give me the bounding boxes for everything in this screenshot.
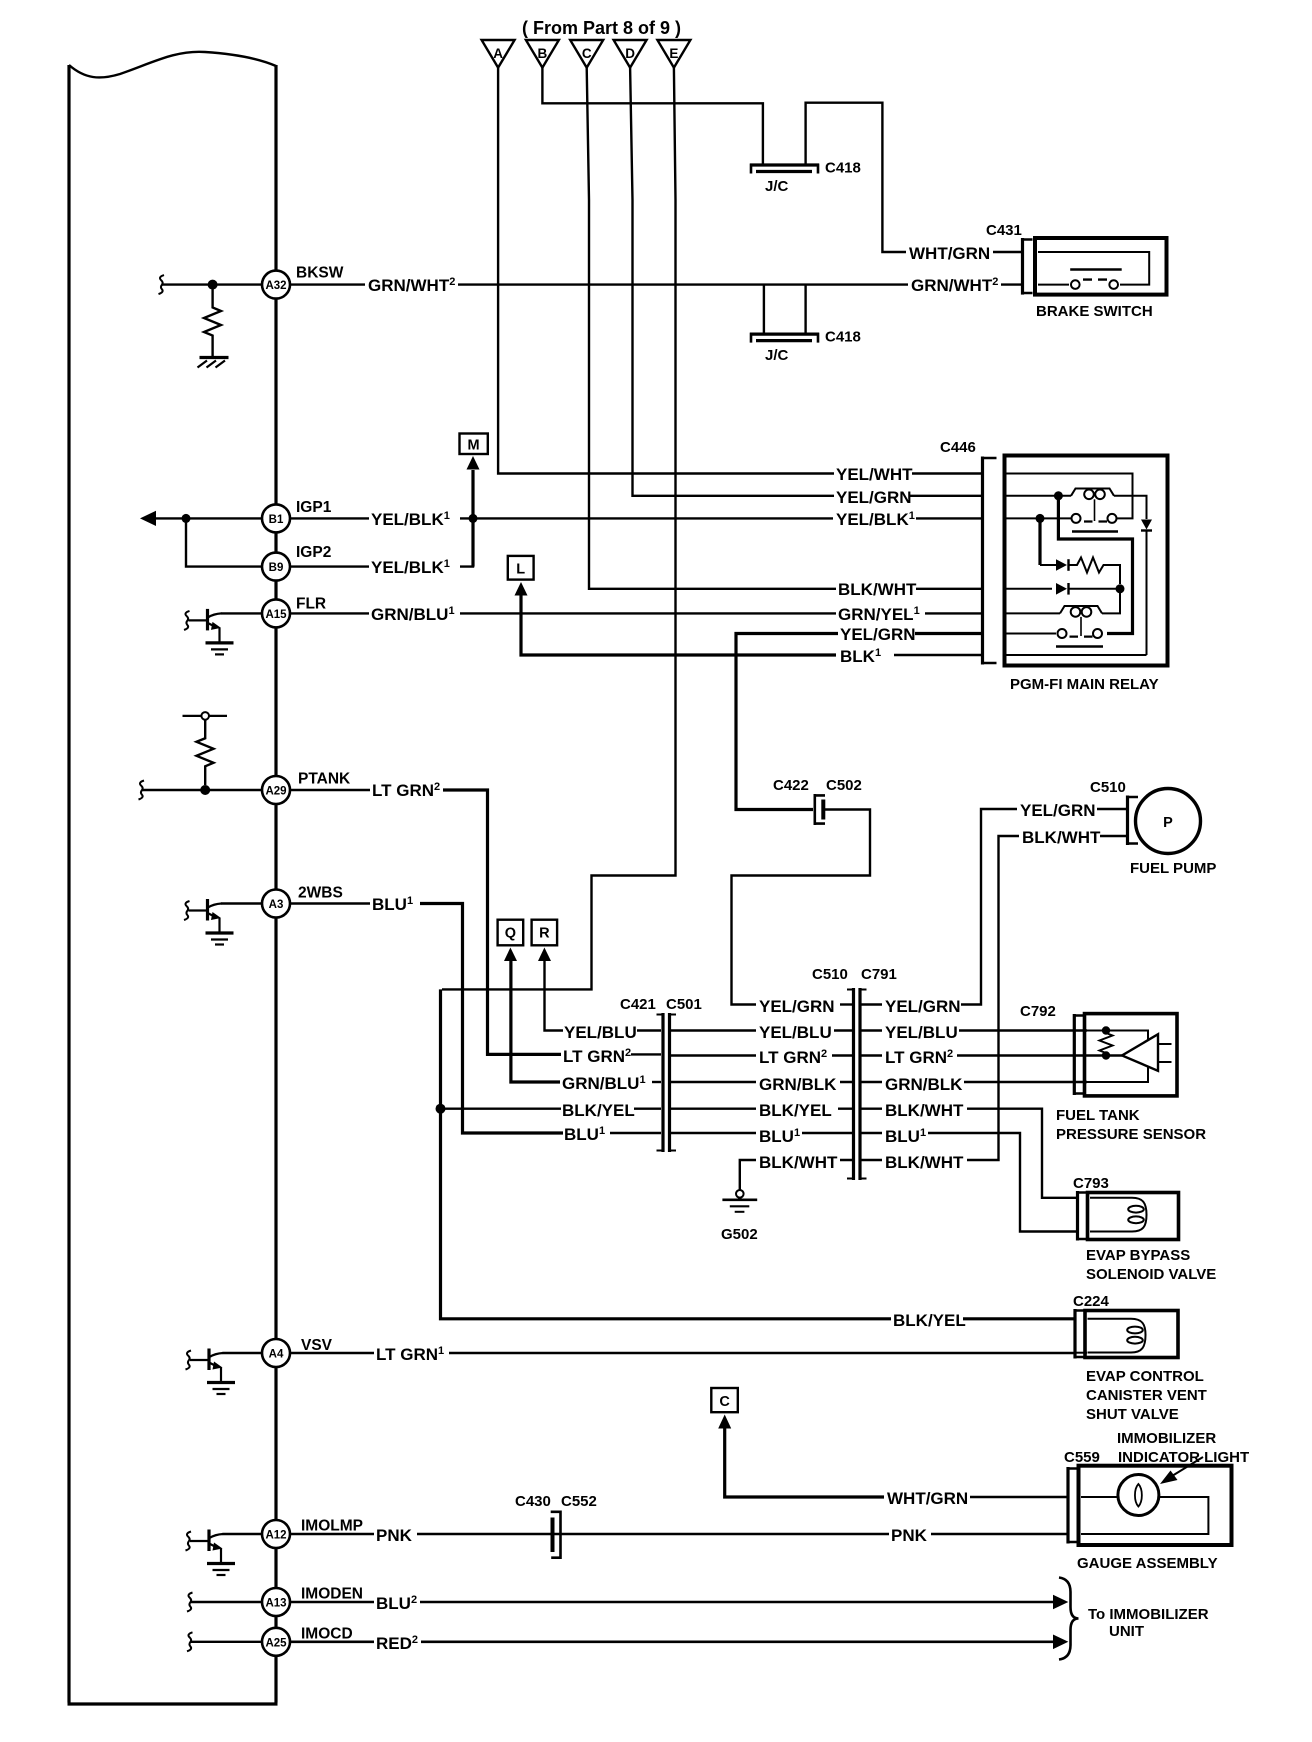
svg-text:GRN/WHT2: GRN/WHT2	[911, 276, 998, 295]
wire from J/C top to brake switch WHT/GRN	[806, 103, 906, 252]
svg-text:GRN/WHT2: GRN/WHT2	[368, 276, 455, 295]
svg-text:GRN/BLK: GRN/BLK	[759, 1075, 837, 1094]
wire IMOCD row RED2 with hook	[187, 1632, 193, 1651]
ground G502	[722, 1190, 757, 1212]
relay row YEL/WHT internal	[1006, 474, 1133, 519]
wire BLK/WHT bottom row up to fuel pump	[862, 836, 1020, 1160]
pin circle A32	[262, 271, 290, 299]
resistor below BKSW dot	[204, 289, 221, 356]
svg-text:C422: C422	[773, 777, 809, 794]
gauge assembly box	[1079, 1466, 1232, 1545]
svg-text:( From Part 8 of 9 ): ( From Part 8 of 9 )	[522, 18, 681, 38]
wire branch IGP1 to IGP2	[186, 518, 262, 566]
svg-text:C793: C793	[1073, 1175, 1109, 1192]
svg-text:LT GRN2: LT GRN2	[759, 1048, 827, 1067]
pull-up resistor above PTANK	[197, 720, 214, 786]
arrowhead into L box	[515, 582, 528, 596]
arrowhead into R box	[538, 948, 551, 962]
wire label GRN/BLU1 (FLR)	[369, 602, 458, 624]
svg-text:YEL/GRN: YEL/GRN	[759, 997, 835, 1016]
relay row GRN/YEL internal to coil 2	[1006, 612, 1060, 614]
svg-text:C559: C559	[1064, 1449, 1100, 1466]
wire LT GRN2 row C421 to C510	[671, 1054, 853, 1056]
power terminal circle above resistor	[201, 712, 209, 720]
svg-text:BLU1: BLU1	[885, 1127, 926, 1146]
connector C510 bracket (fuel pump)	[1126, 796, 1138, 846]
svg-text:A3: A3	[269, 899, 284, 911]
connector C510 C791 bars	[847, 988, 867, 1180]
svg-text:LT GRN2: LT GRN2	[563, 1047, 631, 1066]
svg-text:YEL/GRN: YEL/GRN	[836, 488, 912, 507]
svg-text:J/C: J/C	[765, 347, 789, 364]
pin circle A15	[262, 599, 290, 627]
svg-text:BLU1: BLU1	[564, 1125, 605, 1144]
svg-text:YEL/GRN: YEL/GRN	[885, 997, 961, 1016]
svg-text:C: C	[719, 1394, 730, 1410]
wire GRN/BLK row into sensor	[862, 1081, 1088, 1083]
svg-text:FUEL TANK: FUEL TANK	[1056, 1107, 1140, 1124]
wire label BLK/WHT (relay)	[836, 577, 917, 599]
svg-text:YEL/BLU: YEL/BLU	[759, 1023, 832, 1042]
svg-text:A4: A4	[269, 1349, 284, 1361]
mid wire label YEL/GRN	[757, 994, 835, 1016]
mid wire label LT GRN2	[757, 1045, 831, 1067]
svg-text:C418: C418	[825, 329, 861, 346]
svg-text:LT GRN2: LT GRN2	[372, 781, 440, 800]
wire BLK/YEL row C421 to C510	[671, 1107, 853, 1109]
junction dot IGP1 left branch	[182, 514, 191, 523]
svg-text:BLU2: BLU2	[376, 1594, 417, 1613]
svg-text:PRESSURE SENSOR: PRESSURE SENSOR	[1056, 1126, 1206, 1143]
connector box R	[532, 920, 558, 946]
wire label GRN/YEL1 (relay)	[836, 602, 923, 624]
arrowhead IGP1 left	[140, 511, 156, 526]
wire IGP1 row left with arrow	[154, 517, 262, 519]
svg-text:C791: C791	[861, 966, 897, 983]
wire 2WBS row BLU1	[221, 902, 262, 904]
svg-text:YEL/GRN: YEL/GRN	[840, 625, 916, 644]
svg-text:YEL/BLK1: YEL/BLK1	[836, 510, 915, 529]
wire IMOLMP row PNK	[223, 1533, 263, 1535]
connector C431 bracket	[1021, 238, 1033, 295]
pin circle B1	[262, 504, 290, 532]
relay coil 2	[1060, 606, 1102, 636]
wire label YEL/WHT (relay)	[834, 462, 913, 484]
svg-text:GAUGE ASSEMBLY: GAUGE ASSEMBLY	[1077, 1555, 1218, 1572]
svg-text:C418: C418	[825, 160, 861, 177]
svg-text:SHUT VALVE: SHUT VALVE	[1086, 1406, 1179, 1423]
svg-text:To IMMOBILIZER: To IMMOBILIZER	[1088, 1606, 1209, 1623]
pin circle A25	[262, 1628, 290, 1656]
svg-text:YEL/BLK1: YEL/BLK1	[371, 558, 450, 577]
wire label GRN/WHT2 (right)	[909, 273, 1001, 295]
junction connector J/C C418 (bottom)	[750, 333, 819, 343]
wire label LT GRN2 (PTANK)	[370, 778, 442, 800]
wire label BLK1 (relay)	[838, 644, 892, 666]
svg-text:C: C	[582, 46, 592, 61]
relay bold link coil1 node to contact 2	[1058, 496, 1132, 634]
junction dot on E path at BLK/YEL row	[436, 1104, 446, 1114]
junction dot PTANK row	[200, 785, 210, 795]
svg-text:BLK/YEL: BLK/YEL	[562, 1101, 635, 1120]
wire YEL/GRN row to C422 drop	[907, 632, 983, 635]
transistor FLR driver	[184, 609, 234, 655]
junction connector J/C C418 (top)	[750, 164, 819, 174]
svg-text:A32: A32	[265, 280, 286, 292]
svg-text:M: M	[468, 438, 480, 454]
relay row YEL/GRN internal to coil 1	[1006, 495, 1071, 497]
svg-text:PNK: PNK	[891, 1526, 928, 1545]
svg-text:GRN/YEL1: GRN/YEL1	[838, 605, 920, 624]
svg-text:BLK/WHT: BLK/WHT	[838, 580, 917, 599]
solenoid coil C793	[1090, 1198, 1147, 1232]
sensor internal wiring	[1087, 1031, 1172, 1083]
svg-text:BLK/WHT: BLK/WHT	[885, 1101, 964, 1120]
arrowhead into C box	[718, 1415, 731, 1429]
relay row YEL/GRN internal to contact 2	[1006, 633, 1056, 635]
junction dot YEL/GRN relay	[1054, 491, 1063, 500]
fuel pump motor circle	[1136, 789, 1201, 854]
connector triangle A	[482, 40, 515, 68]
svg-text:PNK: PNK	[376, 1526, 413, 1545]
inline connector C422 C502	[814, 794, 825, 825]
svg-text:IMOLMP: IMOLMP	[301, 1518, 363, 1535]
pin circle A12	[262, 1520, 290, 1548]
connector box Q	[498, 920, 524, 946]
connector triangle B	[526, 40, 559, 68]
wire BLK/WHT row down to C793	[862, 1109, 1077, 1198]
svg-text:BLU1: BLU1	[372, 895, 413, 914]
wire label WHT/GRN (brake)	[907, 241, 992, 263]
wire BLU1 row down to C793	[862, 1133, 1077, 1232]
wire YEL/BLU row into sensor	[862, 1029, 1088, 1031]
wire from triangle C down to relay BLK/WHT row	[587, 68, 838, 589]
solenoid coil C224	[1088, 1319, 1146, 1353]
ECM left boundary vertical	[67, 65, 70, 1703]
wire BKSW row GRN/WHT to brake switch	[290, 283, 365, 285]
svg-text:BLK/YEL: BLK/YEL	[893, 1311, 966, 1330]
svg-text:IGP2: IGP2	[296, 544, 331, 561]
wire BLK/WHT row to G502	[740, 1160, 853, 1190]
svg-text:PGM-FI MAIN RELAY: PGM-FI MAIN RELAY	[1010, 676, 1159, 693]
wire label BLU2 (IMODEN)	[374, 1591, 420, 1613]
wire LT GRN2 row into sensor	[862, 1054, 1123, 1056]
connector C793 bracket	[1076, 1191, 1087, 1241]
arrowhead to immobilizer (RED2)	[1053, 1635, 1068, 1650]
ECM pin rail vertical	[274, 65, 277, 1703]
indicator bulb	[1118, 1475, 1159, 1516]
connector C224 bracket	[1074, 1309, 1085, 1359]
svg-text:BLK1: BLK1	[840, 647, 881, 666]
svg-text:C510: C510	[812, 966, 848, 983]
svg-text:A25: A25	[265, 1637, 287, 1649]
wire BKSW row left stub	[162, 283, 262, 285]
relay coil 1	[1071, 489, 1114, 522]
wire from triangle A down to relay YEL/WHT row	[498, 68, 836, 474]
svg-text:R: R	[539, 926, 550, 942]
svg-text:P: P	[1163, 815, 1173, 831]
wire label WHT/GRN (gauge)	[885, 1486, 970, 1508]
brace to immobilizer unit	[1059, 1578, 1079, 1660]
right wire label YEL/GRN (row)	[883, 994, 961, 1016]
svg-text:YEL/BLK1: YEL/BLK1	[371, 510, 450, 529]
svg-text:BLU1: BLU1	[759, 1127, 800, 1146]
transistor 2WBS driver	[184, 899, 234, 945]
wire from C502 to YEL/GRN row of C510	[732, 810, 871, 1005]
svg-text:BRAKE SWITCH: BRAKE SWITCH	[1036, 303, 1153, 320]
svg-text:C430: C430	[515, 1493, 551, 1510]
sensor internal amplifier triangle	[1122, 1034, 1158, 1071]
wire label BLU1 (2WBS)	[370, 892, 417, 914]
svg-text:D: D	[625, 46, 635, 61]
relay row YEL/BLK internal to contact 1	[1006, 517, 1071, 519]
svg-text:Q: Q	[505, 926, 516, 942]
wire label YEL/GRN (relay)	[834, 485, 912, 507]
fuel pump label YEL/GRN	[1018, 798, 1096, 820]
pin circle A4	[262, 1339, 290, 1367]
brake switch box	[1035, 238, 1167, 295]
svg-text:VSV: VSV	[301, 1337, 333, 1354]
chassis ground below resistor	[198, 358, 229, 368]
mid wire label BLK/YEL	[757, 1098, 836, 1120]
wire YEL/GRN right of C791 up to fuel pump	[862, 809, 1018, 1005]
svg-text:C502: C502	[826, 777, 862, 794]
relay row BLK internal	[1006, 654, 1147, 656]
mid wire label BLU1	[757, 1124, 802, 1146]
wire VSV row LT GRN1 to C224	[223, 1352, 263, 1354]
wire label BLK/YEL (C224 row)	[891, 1308, 966, 1330]
relay diode 3 (to BLK)	[1114, 496, 1152, 655]
wire GRN/BLK row C421 to C510	[671, 1081, 853, 1083]
pin circle B9	[262, 553, 290, 581]
wire label BLK/YEL (C421 left)	[561, 1098, 635, 1120]
connector C421 C501 bars	[657, 1013, 677, 1152]
wire label YEL/BLK1 (IGP1)	[369, 507, 454, 529]
svg-text:B9: B9	[269, 562, 284, 574]
ECM boundary wavy top edge	[69, 52, 276, 78]
wire label YEL/BLU (C421 left)	[563, 1020, 637, 1042]
pin circle A13	[262, 1588, 290, 1616]
svg-text:LT GRN2: LT GRN2	[885, 1048, 953, 1067]
wire from triangle D down to relay YEL/GRN row	[630, 68, 836, 496]
svg-text:PTANK: PTANK	[298, 771, 351, 788]
junction dot BKSW row	[208, 280, 218, 290]
svg-text:WHT/GRN: WHT/GRN	[909, 244, 990, 263]
wire from triangle E down (E path) to BLK/YEL branch	[442, 68, 676, 990]
svg-text:WHT/GRN: WHT/GRN	[887, 1489, 968, 1508]
pin circle A29	[262, 776, 290, 804]
connector triangle C	[570, 40, 603, 68]
wire VSV bottom pin continuation into C224	[1076, 1352, 1087, 1354]
connector triangle D	[614, 40, 647, 68]
wire PTANK row LT GRN2 to C421	[290, 789, 370, 791]
wire label YEL/BLK1 (IGP2)	[369, 555, 454, 577]
sensor internal resistor	[1100, 1026, 1113, 1059]
svg-text:C421: C421	[620, 996, 656, 1013]
svg-text:2WBS: 2WBS	[298, 885, 343, 902]
svg-text:C501: C501	[666, 996, 702, 1013]
wire BLU1 row C421 to C510	[671, 1132, 853, 1134]
wire from Q riser to GRN/BLU1 row	[511, 960, 561, 1082]
svg-text:C446: C446	[940, 439, 976, 456]
connector C792 bracket	[1073, 1014, 1084, 1095]
wire label YEL/BLK1 (relay)	[834, 507, 916, 529]
svg-text:C792: C792	[1020, 1003, 1056, 1020]
wire PTANK row left stub	[142, 789, 262, 791]
relay box PGM-FI MAIN RELAY	[1005, 456, 1168, 666]
EVAP control canister vent shut valve box	[1085, 1311, 1178, 1358]
arrowhead into M box	[467, 456, 480, 470]
M riser bold segment	[471, 470, 474, 567]
wire drops from BKSW row into J/C bottom	[764, 285, 806, 333]
wire from R riser to YEL/BLU row	[545, 960, 564, 1031]
svg-text:UNIT: UNIT	[1109, 1623, 1144, 1640]
svg-text:A12: A12	[265, 1530, 286, 1542]
svg-text:BKSW: BKSW	[296, 265, 344, 282]
svg-text:EVAP CONTROL: EVAP CONTROL	[1086, 1368, 1204, 1385]
svg-text:YEL/WHT: YEL/WHT	[836, 465, 913, 484]
wire label YEL/GRN (relay row 6)	[838, 622, 916, 644]
wire label BLU1 (C421 left)	[563, 1122, 610, 1144]
wire IMODEN row BLU2 with hook	[187, 1593, 193, 1612]
svg-text:A: A	[493, 46, 503, 61]
svg-text:GRN/BLU1: GRN/BLU1	[562, 1074, 646, 1093]
fuel tank pressure sensor box	[1085, 1014, 1178, 1096]
connector box M	[460, 434, 488, 455]
svg-text:IMODEN: IMODEN	[301, 1586, 363, 1603]
terminal hook PTANK left	[139, 781, 145, 800]
svg-text:BLK/WHT: BLK/WHT	[885, 1153, 964, 1172]
svg-text:INDICATOR LIGHT: INDICATOR LIGHT	[1118, 1449, 1249, 1466]
connector triangle E	[657, 40, 690, 68]
mid wire label BLK/WHT	[757, 1150, 839, 1172]
pin circle A3	[262, 890, 290, 918]
svg-text:E: E	[669, 46, 678, 61]
svg-text:GRN/BLU1: GRN/BLU1	[371, 605, 455, 624]
svg-text:GRN/BLK: GRN/BLK	[885, 1075, 963, 1094]
wire YEL/BLU row C421 to C510	[671, 1029, 853, 1031]
leader arrow to indicator bulb	[1160, 1457, 1203, 1484]
inline connector C430 C552 on PNK row	[551, 1511, 561, 1560]
svg-text:C431: C431	[986, 222, 1022, 239]
relay link to coil 2	[1102, 589, 1120, 614]
fuel pump label BLK/WHT	[1020, 825, 1101, 847]
wire IGP1 row right YEL/BLK	[290, 517, 369, 519]
connector box L	[508, 556, 534, 580]
gauge internal wiring	[1081, 1497, 1208, 1534]
svg-text:J/C: J/C	[765, 178, 789, 195]
wire label LT GRN2 (C421 left)	[562, 1044, 631, 1066]
svg-text:LT GRN1: LT GRN1	[376, 1345, 444, 1364]
connector box C	[711, 1388, 738, 1412]
svg-text:RED2: RED2	[376, 1634, 418, 1653]
brake switch internal circuit	[1038, 252, 1149, 289]
wire label PNK (right)	[889, 1523, 930, 1545]
svg-text:IMMOBILIZER: IMMOBILIZER	[1117, 1430, 1216, 1447]
svg-text:C224: C224	[1073, 1293, 1110, 1310]
EVAP bypass solenoid valve box	[1088, 1193, 1179, 1240]
wire label RED2 (IMOCD)	[374, 1631, 421, 1653]
transistor IMOLMP driver	[186, 1530, 236, 1576]
svg-text:YEL/BLU: YEL/BLU	[885, 1023, 958, 1042]
svg-text:A13: A13	[265, 1598, 286, 1610]
svg-text:BLK/YEL: BLK/YEL	[759, 1101, 832, 1120]
svg-text:IGP1: IGP1	[296, 499, 332, 516]
junction dot BLK/WHT relay	[1116, 584, 1125, 593]
arrowhead into Q box	[504, 948, 517, 962]
svg-text:BLK/WHT: BLK/WHT	[759, 1153, 838, 1172]
relay diode 1 and resistor branch	[1040, 518, 1120, 584]
connector C446 bracket	[981, 457, 997, 665]
svg-text:YEL/BLU: YEL/BLU	[564, 1023, 637, 1042]
connector C559 bracket	[1067, 1467, 1079, 1544]
terminal hook BKSW left	[159, 275, 165, 294]
wire WHT/GRN row from C riser to gauge	[725, 1427, 884, 1497]
relay row BLK/WHT internal with diode 2	[1006, 583, 1120, 595]
svg-text:IMOCD: IMOCD	[301, 1626, 353, 1643]
svg-text:C510: C510	[1090, 779, 1126, 796]
svg-text:SOLENOID VALVE: SOLENOID VALVE	[1086, 1266, 1216, 1283]
svg-text:A29: A29	[265, 786, 286, 798]
svg-text:BLK/WHT: BLK/WHT	[1022, 828, 1101, 847]
wire from triangle B down to J/C C418	[542, 68, 763, 164]
svg-text:G502: G502	[721, 1226, 758, 1243]
wire IGP2 row right YEL/BLK to M riser	[290, 565, 369, 567]
wire label GRN/WHT2 (left)	[366, 273, 458, 295]
mid wire label YEL/BLU	[757, 1020, 833, 1042]
mid wire label GRN/BLK	[757, 1072, 838, 1094]
wire BLK1 row from L riser to relay	[521, 594, 836, 655]
junction dot YEL/BLK relay	[1036, 514, 1045, 523]
svg-text:C552: C552	[561, 1493, 597, 1510]
svg-text:CANISTER VENT: CANISTER VENT	[1086, 1387, 1207, 1404]
svg-text:FUEL PUMP: FUEL PUMP	[1130, 860, 1216, 877]
svg-text:L: L	[516, 562, 525, 578]
svg-text:FLR: FLR	[296, 596, 326, 613]
wire label LT GRN1 (VSV)	[374, 1342, 448, 1364]
wire FLR row	[221, 612, 262, 614]
wire label PNK (left)	[374, 1523, 415, 1545]
transistor VSV driver	[186, 1349, 236, 1395]
relay contact 1	[1072, 514, 1119, 532]
junction dot M riser on IGP1 row	[469, 514, 478, 523]
svg-text:B: B	[538, 46, 548, 61]
wire label GRN/BLU1 (C421 left)	[560, 1071, 649, 1093]
ECM boundary bottom edge	[68, 1702, 278, 1705]
svg-text:EVAP BYPASS: EVAP BYPASS	[1086, 1247, 1190, 1264]
relay contact 2	[1056, 629, 1103, 647]
arrowhead to immobilizer (BLU2)	[1053, 1595, 1068, 1610]
svg-text:YEL/GRN: YEL/GRN	[1020, 801, 1096, 820]
wire BLK/YEL row from E path to C421	[441, 1107, 562, 1109]
svg-text:A15: A15	[265, 609, 287, 621]
svg-text:B1: B1	[269, 514, 284, 526]
